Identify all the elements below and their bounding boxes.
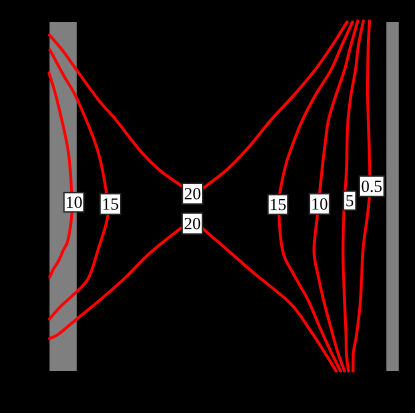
label 5 right (343, 191, 356, 210)
contour 20 upper-left branch (50, 35, 182, 186)
contour 20 lower-right branch (202, 228, 336, 371)
contour 20 upper-right branch (202, 22, 347, 189)
left electrode plate (50, 22, 77, 371)
label 10 right (309, 194, 329, 215)
label 15 left (100, 194, 121, 215)
contour 5 right (343, 21, 363, 371)
right electrode plate (386, 22, 399, 371)
contour 10 left (49, 73, 72, 277)
label 0.5 right (359, 176, 384, 196)
contour 15 left (50, 50, 109, 319)
contour 15 right (279, 22, 353, 371)
contour 20 lower-left branch (50, 228, 182, 339)
contour 0.5 right (353, 21, 370, 371)
label 20 lower center (182, 213, 202, 234)
contour 10 right (314, 21, 358, 371)
label 20 upper center (182, 183, 202, 204)
label 10 left (64, 193, 84, 212)
label 15 right (268, 195, 288, 215)
